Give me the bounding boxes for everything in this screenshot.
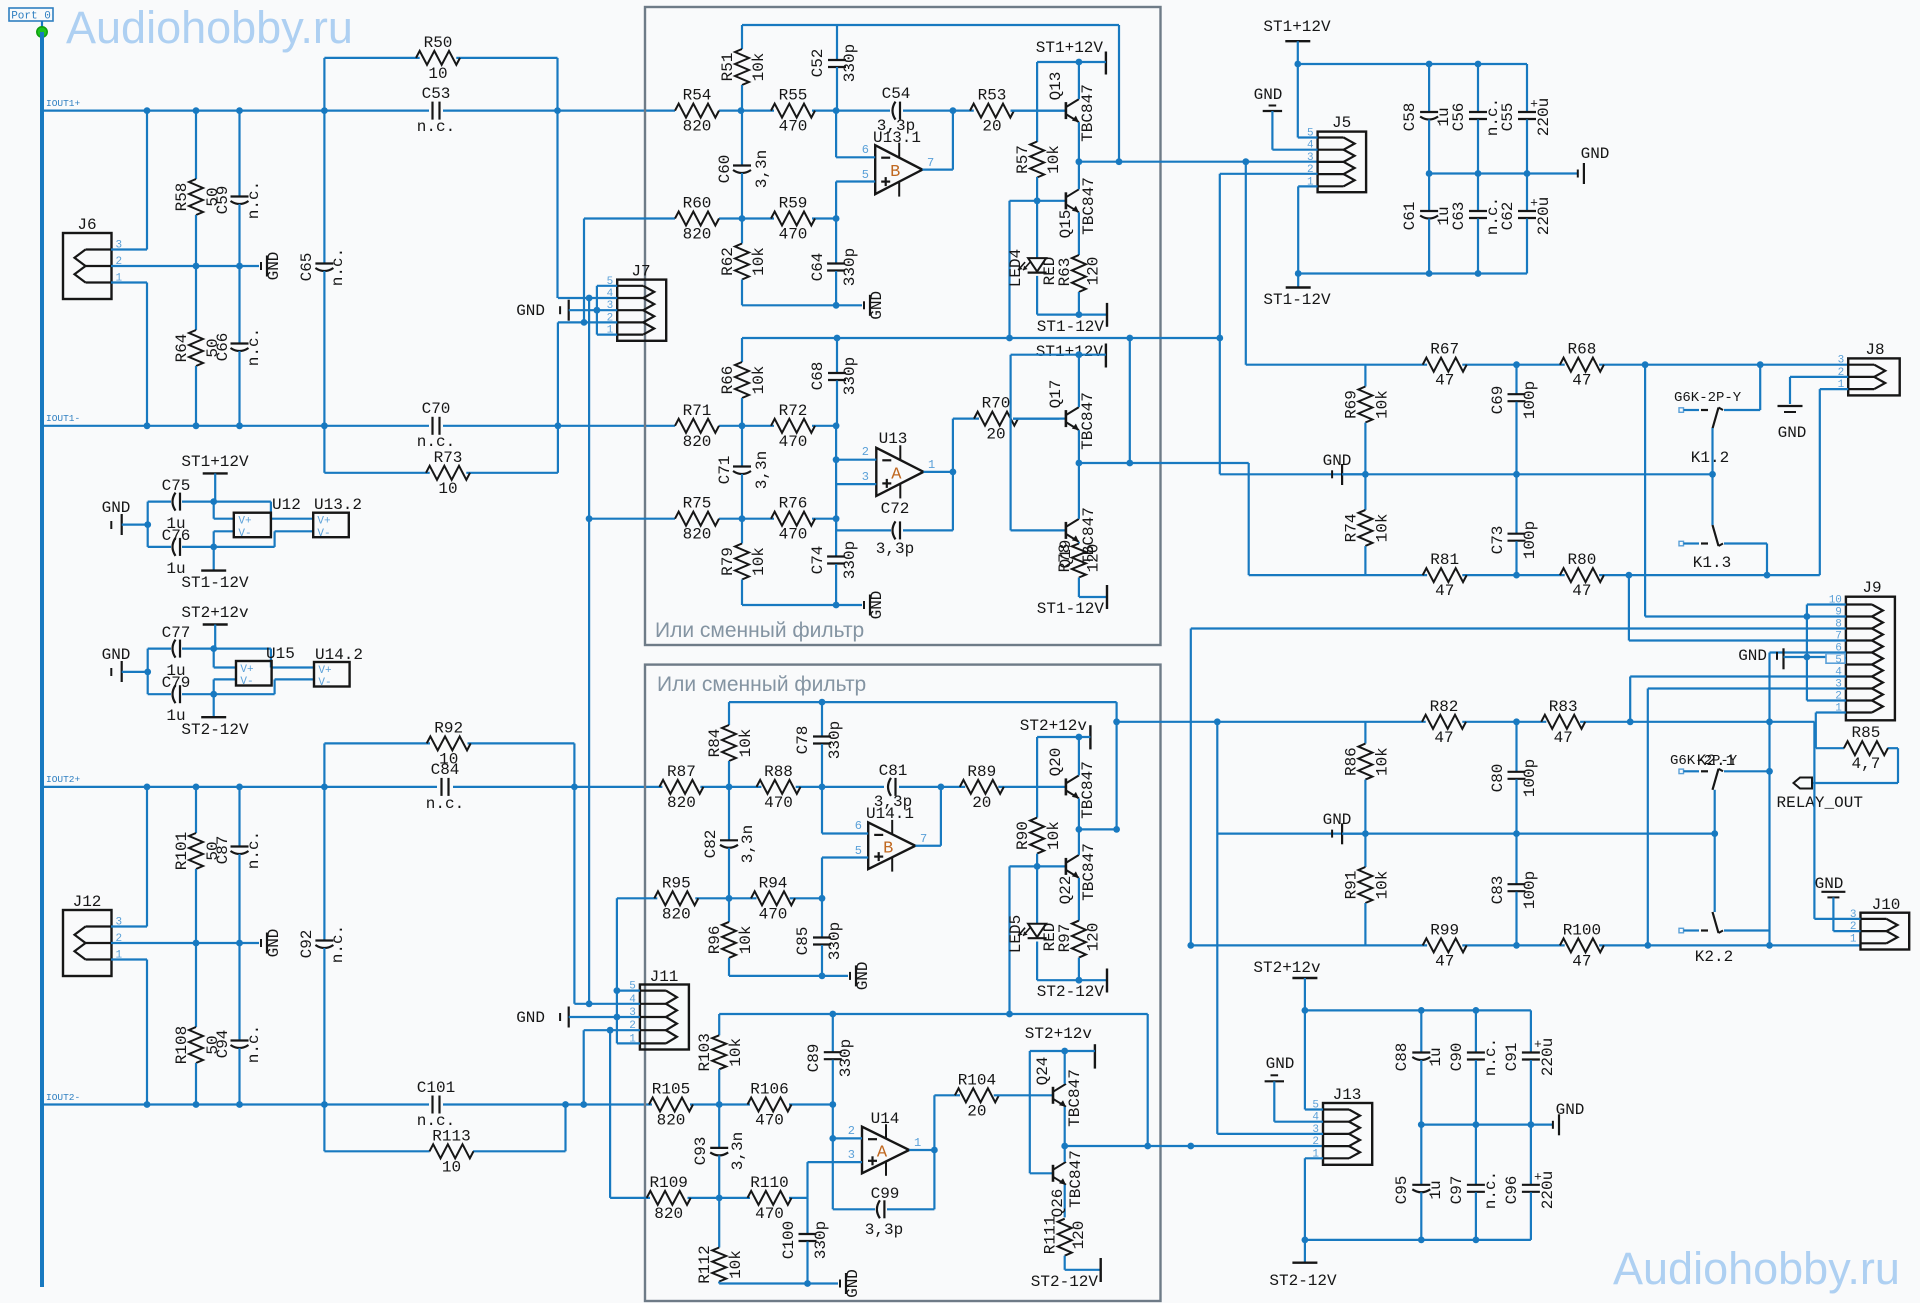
LED LED5 RED [1036, 866, 1038, 923]
svg-text:R83: R83 [1549, 698, 1578, 716]
svg-text:GND: GND [1323, 811, 1352, 829]
resistor R91 [1364, 834, 1366, 867]
wire J6 pin3 to IOUT1+ [111, 248, 147, 250]
svg-text:Port 0: Port 0 [11, 11, 51, 23]
svg-text:R100: R100 [1563, 921, 1601, 939]
svg-text:C101: C101 [417, 1079, 455, 1097]
svg-text:TBC847: TBC847 [1066, 1069, 1084, 1127]
resistor R53 [970, 104, 1014, 118]
svg-text:C77: C77 [162, 624, 191, 642]
svg-text:n.c.: n.c. [245, 1025, 263, 1063]
resistor R85 [1816, 747, 1844, 749]
capacitor C66 [238, 266, 240, 344]
ground A-cell [863, 601, 865, 609]
wire IOUT1+ line [42, 109, 429, 111]
svg-text:1: 1 [914, 1136, 921, 1150]
svg-text:R74: R74 [1342, 513, 1360, 542]
capacitor C63 [1477, 174, 1479, 212]
junction dots on IOUT1+ [144, 107, 151, 114]
svg-text:470: 470 [759, 905, 788, 923]
resistor R81 [1423, 568, 1467, 582]
wire Q19 base riser [1009, 355, 1011, 531]
svg-text:ST1+12V: ST1+12V [1263, 18, 1331, 36]
svg-text:10k: 10k [1373, 513, 1391, 542]
svg-text:K1.3: K1.3 [1693, 554, 1731, 572]
svg-text:n.c.: n.c. [245, 831, 263, 869]
svg-text:J6: J6 [77, 216, 96, 234]
svg-text:R62: R62 [719, 247, 737, 276]
wire J10 pin3 from R83 [1813, 722, 1815, 919]
capacitor C94 [238, 943, 240, 1041]
svg-text:GND: GND [265, 929, 283, 958]
wire ST2 bank mid rail [1421, 1123, 1553, 1125]
wire Q13/Q15 node row [1079, 161, 1318, 163]
resistor R112 [718, 1198, 720, 1248]
svg-text:R55: R55 [779, 87, 808, 105]
capacitor C88 [1420, 1010, 1422, 1052]
svg-text:R63: R63 [1056, 258, 1074, 287]
resistor R105 [649, 1098, 693, 1112]
wire J12 pin3 to IOUT2+ [111, 925, 147, 927]
transistor Q22 TBC847 [1010, 865, 1066, 867]
resistor R103 [718, 1014, 720, 1035]
wire J13 pin5 from +12v [1304, 1010, 1306, 1109]
resistor R83 [1541, 715, 1585, 729]
resistor R71 [675, 419, 719, 433]
resistor R73 [323, 426, 325, 473]
svg-text:ST1-12V: ST1-12V [1037, 600, 1105, 618]
op-amp U13 output pin 1 wire [924, 471, 953, 473]
wire J6 pin1 down to IOUT1- [111, 281, 147, 283]
svg-text:R71: R71 [683, 402, 712, 420]
svg-text:R99: R99 [1430, 921, 1459, 939]
svg-text:U14: U14 [871, 1110, 900, 1128]
svg-text:R96: R96 [706, 925, 724, 954]
relay contact K1.2 [1679, 408, 1684, 413]
svg-text:Q17: Q17 [1047, 380, 1065, 409]
svg-text:R70: R70 [982, 395, 1011, 413]
svg-text:47: 47 [1435, 372, 1454, 390]
svg-text:n.c.: n.c. [245, 328, 263, 366]
svg-text:R73: R73 [434, 449, 463, 467]
svg-text:Q13: Q13 [1047, 72, 1065, 101]
svg-text:3,3p: 3,3p [876, 540, 914, 558]
svg-text:V+: V+ [318, 665, 331, 677]
resistor R75 [675, 512, 719, 526]
wire Q20/Q22 node row [1079, 828, 1117, 830]
svg-text:R110: R110 [750, 1174, 788, 1192]
op-amp U13 pin 3 wire [836, 483, 876, 485]
svg-text:LED4: LED4 [1007, 249, 1025, 287]
resistor R60 [675, 212, 719, 226]
svg-text:C52: C52 [809, 49, 827, 78]
svg-text:R68: R68 [1567, 341, 1596, 359]
IC U14.2 power block [314, 662, 350, 687]
svg-text:R106: R106 [750, 1081, 788, 1099]
svg-text:120: 120 [1084, 544, 1102, 573]
capacitor C76 [148, 546, 171, 548]
resistor R84 [728, 702, 730, 725]
capacitor C74 [835, 519, 837, 557]
resistor R80 [1560, 568, 1604, 582]
resistor R50 [324, 57, 419, 59]
svg-text:10k: 10k [1045, 821, 1063, 850]
wire J9 pin8 from channel2 [1191, 627, 1846, 629]
ground CH2 B-cell [849, 972, 851, 980]
svg-text:R53: R53 [978, 87, 1007, 105]
wire J9 pin9 from R68 row [1644, 365, 1646, 617]
svg-text:10k: 10k [1373, 390, 1391, 419]
resistor R96 [728, 898, 730, 922]
resistor R57 [1036, 62, 1038, 142]
svg-text:ST1-12V: ST1-12V [1037, 318, 1105, 336]
wire CH2 A-cell ground row [719, 1282, 838, 1284]
connector J13 [1323, 1103, 1372, 1165]
svg-text:TBC847: TBC847 [1080, 177, 1098, 235]
wire IOUT1- line [42, 425, 429, 427]
svg-text:R105: R105 [652, 1081, 690, 1099]
svg-text:TBC847: TBC847 [1079, 392, 1097, 450]
svg-text:C75: C75 [162, 477, 191, 495]
svg-text:J11: J11 [650, 968, 679, 986]
svg-text:C79: C79 [162, 674, 191, 692]
op-amp U14 pin 3 wire [808, 1161, 863, 1163]
svg-text:Q20: Q20 [1047, 748, 1065, 777]
svg-text:R69: R69 [1342, 390, 1360, 419]
svg-text:J8: J8 [1865, 341, 1884, 359]
svg-text:ST1-12V: ST1-12V [181, 574, 249, 592]
svg-text:GND: GND [1266, 1055, 1295, 1073]
svg-text:Или сменный фильтр: Или сменный фильтр [657, 673, 866, 696]
svg-text:R79: R79 [719, 547, 737, 576]
resistor R87 [659, 780, 703, 794]
svg-text:ST2-12V: ST2-12V [1269, 1272, 1337, 1290]
wire Q26 emitter bottom row [1065, 1269, 1101, 1271]
svg-text:GND: GND [102, 646, 131, 664]
svg-text:3,3n: 3,3n [729, 1132, 747, 1170]
capacitor C89 [832, 1014, 834, 1052]
op-amp U13.1 pin 6 wire [835, 111, 837, 158]
capacitor C93 [718, 1105, 720, 1148]
svg-text:10: 10 [442, 1158, 461, 1176]
svg-text:K1.2: K1.2 [1691, 449, 1729, 467]
svg-text:R75: R75 [683, 495, 712, 513]
svg-text:2: 2 [1312, 1136, 1319, 1148]
svg-text:470: 470 [779, 118, 808, 136]
svg-text:J12: J12 [73, 893, 102, 911]
svg-text:120: 120 [1084, 923, 1102, 952]
svg-text:n.c.: n.c. [329, 925, 347, 963]
svg-text:220u: 220u [1535, 197, 1553, 235]
svg-text:ST2+12v: ST2+12v [1253, 959, 1321, 977]
op-amp U13.1 output pin 7 wire [922, 169, 953, 171]
wire V- rail of U15 [210, 691, 217, 698]
svg-text:C100: C100 [780, 1221, 798, 1259]
svg-text:5: 5 [855, 844, 862, 858]
svg-text:A: A [891, 465, 902, 484]
svg-text:C85: C85 [794, 927, 812, 956]
resistor R64 [195, 266, 197, 330]
svg-text:C54: C54 [882, 85, 911, 103]
op-amp U13 pin 2 wire [835, 426, 837, 460]
svg-text:1: 1 [928, 458, 935, 472]
wire CH2 A feedback riser [1147, 1014, 1149, 1146]
wire Q20 collector rail [1037, 736, 1090, 738]
capacitor C52 [836, 25, 838, 60]
wire cap bank bottom rail [1298, 272, 1527, 274]
svg-text:C97: C97 [1448, 1176, 1466, 1205]
svg-text:C91: C91 [1503, 1043, 1521, 1072]
wire R60 input row [584, 217, 675, 219]
svg-text:U13.1: U13.1 [873, 129, 921, 147]
svg-text:IOUT2-: IOUT2- [46, 1092, 80, 1103]
power ST1-12V below J5 [1286, 286, 1311, 288]
svg-text:C62: C62 [1499, 202, 1517, 231]
svg-text:V-: V- [318, 677, 331, 689]
svg-text:V-: V- [317, 528, 330, 540]
svg-text:C93: C93 [692, 1137, 710, 1166]
svg-text:10k: 10k [750, 547, 768, 576]
svg-text:V+: V+ [238, 516, 251, 528]
capacitor C83 [1515, 834, 1517, 885]
resistor R110 [748, 1191, 792, 1205]
svg-text:C73: C73 [1489, 526, 1507, 555]
svg-text:R104: R104 [958, 1071, 996, 1089]
svg-text:C65: C65 [298, 253, 316, 282]
svg-text:R80: R80 [1567, 551, 1596, 569]
capacitor C69 [1515, 365, 1517, 395]
svg-text:n.c.: n.c. [245, 181, 263, 219]
svg-text:C88: C88 [1393, 1043, 1411, 1072]
svg-text:R84: R84 [706, 729, 724, 758]
svg-text:C64: C64 [809, 253, 827, 282]
capacitor C70 [431, 417, 433, 435]
svg-text:U14.1: U14.1 [866, 805, 914, 823]
wire J9 pin7 from R80 row [1628, 575, 1630, 640]
svg-text:R92: R92 [434, 719, 463, 737]
svg-text:n.c.: n.c. [417, 118, 455, 136]
wire V+ rail of U12 [210, 498, 217, 505]
svg-text:C74: C74 [809, 546, 827, 575]
svg-text:R88: R88 [764, 763, 793, 781]
op-amp U14 pin 2 wire [832, 1105, 834, 1139]
svg-text:R89: R89 [967, 763, 996, 781]
capacitor C64 [835, 219, 837, 264]
capacitor C54 [893, 102, 896, 120]
svg-text:820: 820 [654, 1205, 683, 1223]
wire CH2 relay mid row [1217, 832, 1714, 834]
svg-text:470: 470 [764, 794, 793, 812]
svg-text:ST2+12v: ST2+12v [1020, 717, 1088, 735]
wire A-cell output risers [952, 419, 954, 472]
svg-text:B: B [890, 163, 900, 182]
wire R67 row from J5 pin3 [1245, 162, 1247, 365]
svg-text:U13.2: U13.2 [314, 496, 362, 514]
svg-text:R60: R60 [683, 195, 712, 213]
wire R95 input row [617, 897, 657, 899]
capacitor C61 [1428, 174, 1430, 212]
svg-text:100p: 100p [1521, 521, 1539, 559]
svg-text:GND: GND [1323, 452, 1352, 470]
resistor R58 [195, 111, 197, 179]
resistor R94 [751, 891, 795, 905]
wire R92 bypass risers [323, 743, 325, 787]
svg-text:U13: U13 [879, 430, 908, 448]
svg-text:GND: GND [1778, 424, 1807, 442]
power ST2-12V below J13 [1292, 1261, 1317, 1263]
svg-text:820: 820 [683, 433, 712, 451]
svg-text:R95: R95 [662, 874, 691, 892]
wire J7 bracket pins 5-1 [597, 285, 617, 287]
wire C77-C79 left leg [147, 649, 149, 695]
svg-text:R108: R108 [173, 1026, 191, 1064]
svg-text:C92: C92 [298, 930, 316, 959]
svg-text:R85: R85 [1851, 724, 1880, 742]
svg-text:R97: R97 [1056, 924, 1074, 953]
transistor Q19 TBC847 [1011, 529, 1066, 531]
svg-text:470: 470 [755, 1205, 784, 1223]
wire A-cell feedback row [742, 337, 1220, 339]
svg-text:100p: 100p [1521, 759, 1539, 797]
svg-text:ST1+12V: ST1+12V [1036, 343, 1104, 361]
IC U13.2 power block [313, 513, 349, 538]
svg-text:R94: R94 [759, 874, 788, 892]
resistor R70 [953, 418, 979, 420]
svg-text:C94: C94 [214, 1030, 232, 1059]
svg-text:470: 470 [779, 526, 808, 544]
svg-text:1u: 1u [1427, 1180, 1445, 1199]
svg-text:10k: 10k [737, 925, 755, 954]
wire V+ rail of U15 [210, 645, 217, 652]
resistor R89 [960, 780, 1004, 794]
svg-text:C99: C99 [871, 1185, 900, 1203]
capacitor C53 [431, 102, 433, 120]
wire CH2 A-cell output risers [933, 1095, 935, 1150]
svg-text:n.c.: n.c. [1482, 1038, 1500, 1076]
svg-text:6: 6 [855, 819, 862, 833]
wire J9 pin1 to R85 [1816, 711, 1846, 713]
resistor R109 [647, 1191, 691, 1205]
wire Q22 emitter bottom row [1037, 979, 1107, 981]
capacitor C91 [1530, 1010, 1532, 1052]
svg-text:ST2-12V: ST2-12V [181, 721, 249, 739]
svg-text:C66: C66 [214, 333, 232, 362]
capacitor C56 [1477, 64, 1479, 112]
svg-text:C81: C81 [879, 762, 908, 780]
svg-text:GND: GND [516, 302, 545, 320]
svg-text:ST2+12v: ST2+12v [181, 604, 249, 622]
svg-text:TBC847: TBC847 [1067, 1150, 1085, 1208]
resistor R51 [741, 25, 743, 49]
svg-text:330p: 330p [826, 721, 844, 759]
wire C75-C76 left leg [147, 502, 149, 547]
wire R85 to RELAY_OUT [1897, 748, 1899, 783]
wire J11 pin5/pin1 bracket [617, 989, 640, 991]
svg-text:6: 6 [862, 143, 869, 157]
svg-text:C69: C69 [1489, 386, 1507, 415]
svg-text:R67: R67 [1430, 341, 1459, 359]
power ST1-12V at Q19 [1106, 585, 1108, 609]
capacitor C92 [323, 787, 325, 941]
resistor R76 [771, 512, 815, 526]
svg-text:GND: GND [1254, 86, 1283, 104]
svg-text:330p: 330p [841, 357, 859, 395]
svg-text:R72: R72 [779, 402, 808, 420]
wire A feedback riser [1129, 338, 1131, 463]
svg-text:R64: R64 [173, 334, 191, 363]
svg-text:3,3p: 3,3p [865, 1221, 903, 1239]
resistor R63 [1072, 255, 1086, 292]
svg-text:330p: 330p [826, 922, 844, 960]
svg-text:47: 47 [1572, 952, 1591, 970]
wire J8 pin2 to GND [1790, 376, 1848, 378]
svg-text:C72: C72 [881, 500, 910, 518]
wire V- rail of U12 [210, 544, 217, 551]
wire J7 pin4 row from IOUT1+ [558, 297, 617, 299]
resistor R88 [757, 780, 801, 794]
svg-text:V-: V- [238, 528, 251, 540]
capacitor C68 [836, 338, 838, 373]
op-amp U14 [862, 1127, 909, 1174]
svg-text:3: 3 [1838, 355, 1845, 367]
capacitor C59 [238, 111, 240, 197]
svg-text:V+: V+ [240, 664, 253, 676]
svg-text:5: 5 [1835, 655, 1842, 667]
svg-text:2: 2 [862, 445, 869, 459]
wire relay mid row [1220, 473, 1713, 475]
svg-text:10k: 10k [1373, 747, 1391, 776]
connector J9 [1846, 597, 1895, 721]
svg-text:R112: R112 [696, 1245, 714, 1283]
svg-text:J13: J13 [1333, 1086, 1362, 1104]
svg-text:7: 7 [927, 156, 934, 170]
wire J7 pin4 to J11 pin4 long riser [588, 298, 590, 1007]
resistor R100 [1560, 938, 1604, 952]
wire J9 bracket pins 10-2 [1807, 603, 1846, 605]
resistor R99 [1423, 938, 1467, 952]
svg-text:IOUT2+: IOUT2+ [46, 774, 81, 785]
connector J8 [1848, 358, 1900, 395]
svg-text:U12: U12 [272, 496, 301, 514]
node Port 0 green dot [37, 27, 47, 37]
svg-text:10: 10 [438, 480, 457, 498]
svg-text:330p: 330p [841, 541, 859, 579]
capacitor C75 [148, 501, 171, 503]
capacitor C95 [1420, 1125, 1422, 1185]
svg-text:TBC847: TBC847 [1079, 761, 1097, 819]
resistor R104 [934, 1094, 960, 1096]
IC U12 power block [234, 513, 271, 538]
op-amp U14.1 [868, 822, 915, 869]
power ST2-12V at Q26 [1099, 1258, 1101, 1282]
svg-text:C70: C70 [422, 400, 451, 418]
resistor R101 [195, 787, 197, 833]
resistor R95 [654, 891, 698, 905]
transistor Q15 TBC847 [1010, 200, 1066, 202]
svg-text:ST2-12V: ST2-12V [1037, 983, 1105, 1001]
svg-text:R51: R51 [719, 53, 737, 82]
wire A-cell ground row [742, 604, 862, 606]
svg-text:10k: 10k [1373, 871, 1391, 900]
svg-text:ST1+12V: ST1+12V [1036, 39, 1104, 57]
svg-text:10k: 10k [727, 1038, 745, 1067]
capacitor C60 [741, 111, 743, 166]
capacitor C78 [821, 702, 823, 736]
svg-text:J9: J9 [1862, 579, 1881, 597]
wire ST2 bank bottom rail [1305, 1239, 1531, 1241]
svg-text:C59: C59 [214, 186, 232, 215]
resistor R69 [1364, 365, 1366, 387]
